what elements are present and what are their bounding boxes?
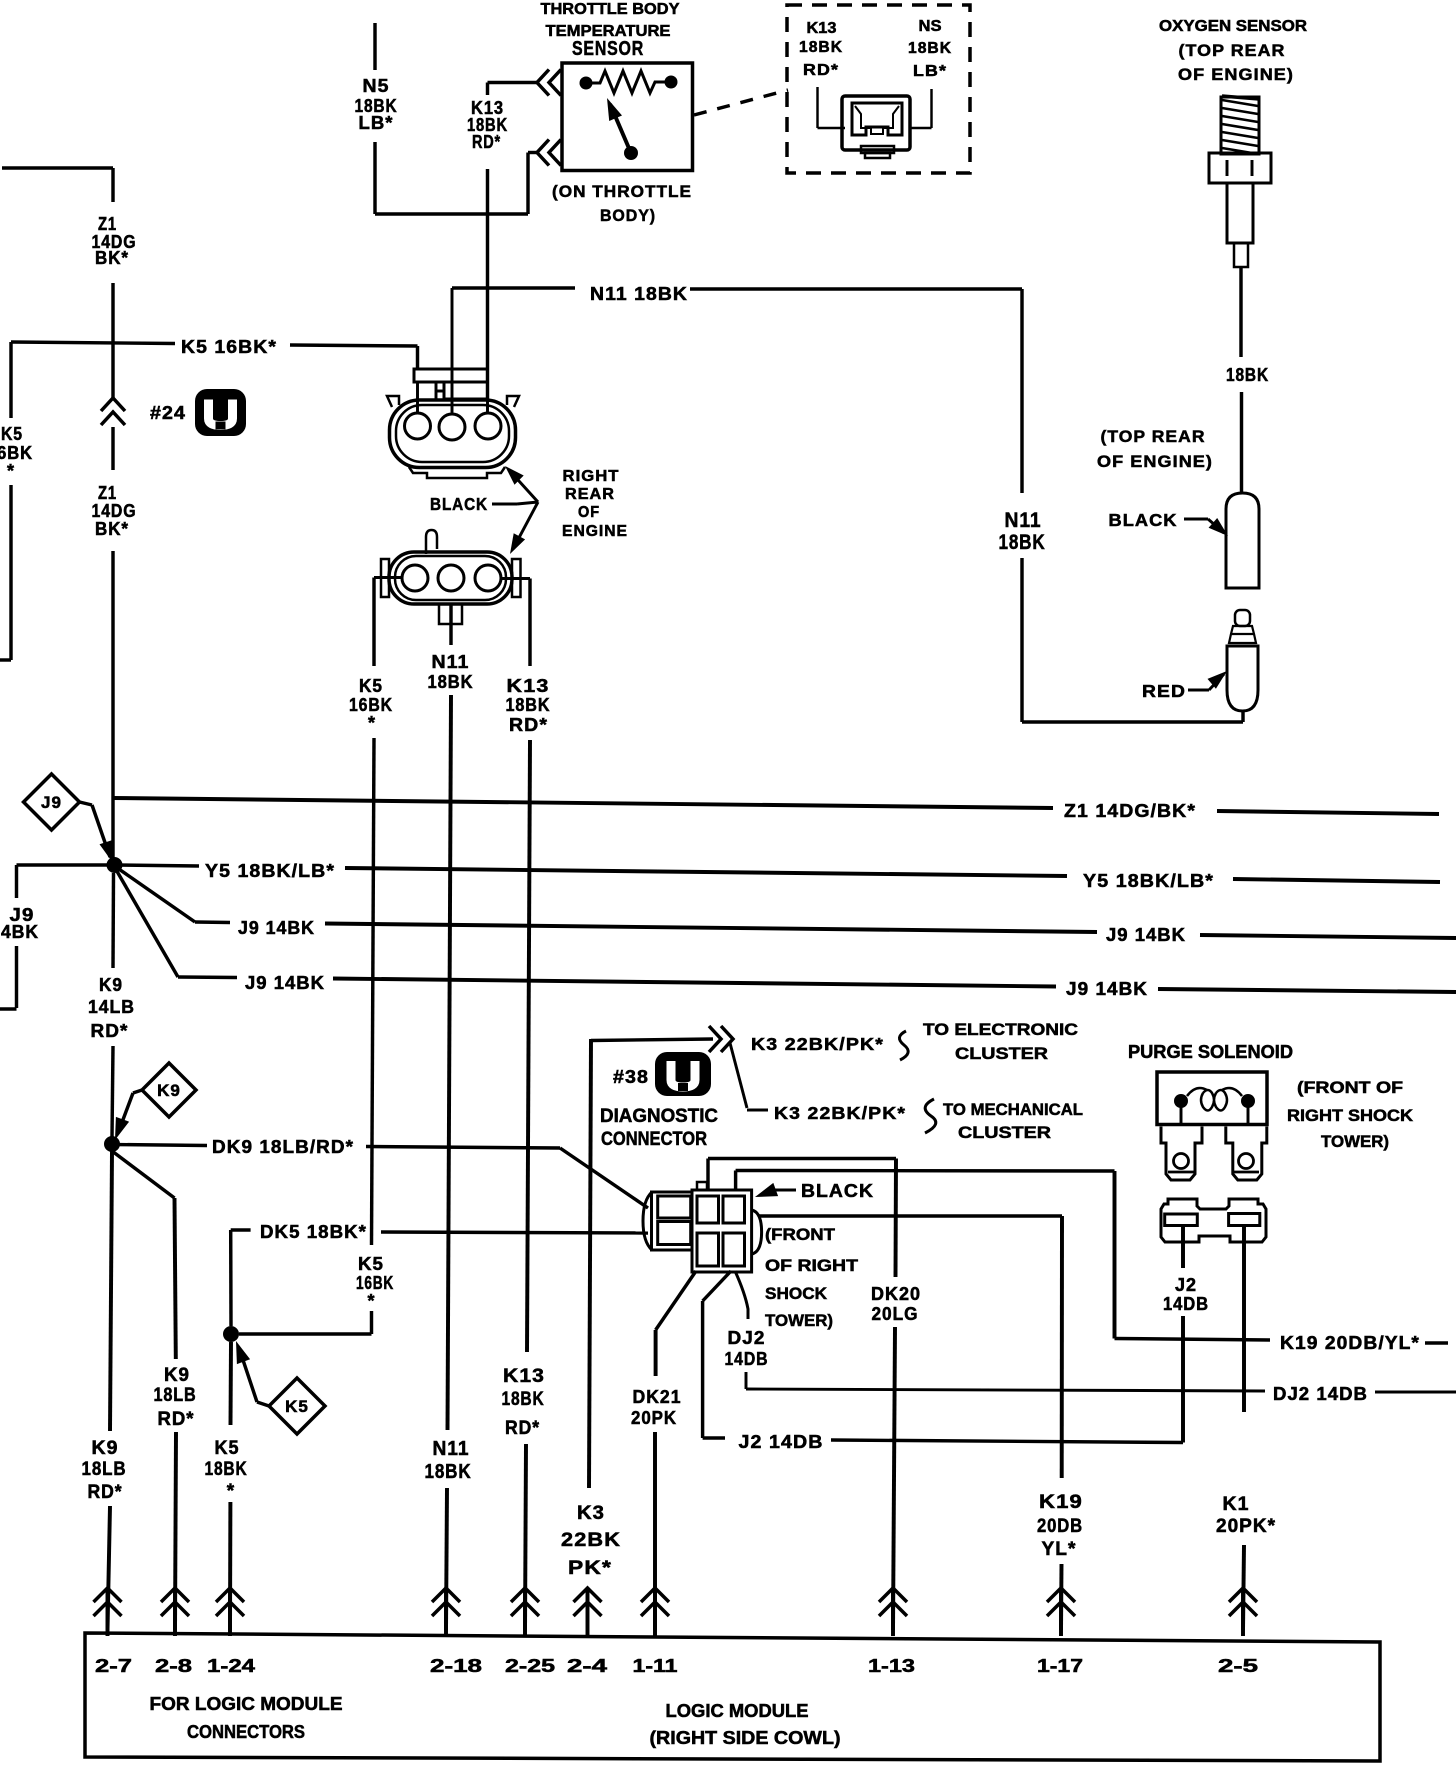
svg-text:16BK: 16BK — [349, 695, 393, 715]
svg-text:DIAGNOSTIC: DIAGNOSTIC — [600, 1106, 718, 1127]
svg-text:2-7: 2-7 — [95, 1655, 132, 1676]
oxygen sensor hex — [1209, 153, 1271, 183]
svg-text:1-17: 1-17 — [1037, 1655, 1083, 1676]
svg-text:14DB: 14DB — [1163, 1294, 1209, 1314]
oxygen sensor tip — [1234, 243, 1248, 267]
diagnostic connector cell right-top-2 — [723, 1196, 745, 1223]
connector C2 pin 2 — [438, 565, 464, 591]
module pin arrow 2-18 — [432, 1588, 460, 1602]
wire K1 from solenoid connector — [1242, 1226, 1246, 1412]
wire K13 long drop — [527, 740, 530, 1352]
svg-text:18BK: 18BK — [908, 40, 952, 57]
svg-text:K5: K5 — [1, 424, 23, 444]
svg-text:J2 14DB: J2 14DB — [739, 1432, 824, 1452]
svg-text:K5: K5 — [359, 676, 383, 696]
wire DK20 from connector top — [706, 1159, 709, 1191]
wire J2 from solenoid connector — [1181, 1226, 1185, 1268]
diagnostic connector top tab — [697, 1182, 707, 1190]
svg-text:PURGE SOLENOID: PURGE SOLENOID — [1128, 1042, 1293, 1062]
connector C1 cap rectangles — [414, 369, 488, 382]
svg-text:J9 14BK: J9 14BK — [1066, 979, 1148, 999]
throttle sensor box — [562, 63, 693, 171]
wire DJ2 to page edge — [1375, 1391, 1456, 1394]
connector C2 body — [389, 552, 512, 604]
detail connector body — [842, 96, 910, 150]
svg-text:K9: K9 — [164, 1365, 190, 1386]
wire K5 into C1 pin1 — [416, 382, 419, 413]
wire DK5 corner and stub — [231, 1228, 251, 1231]
wire J2 drop to corner — [1181, 1316, 1185, 1443]
svg-text:18BK: 18BK — [428, 672, 474, 692]
connector slot left — [1165, 1214, 1198, 1226]
svg-text:18BK: 18BK — [502, 1389, 545, 1410]
junction splice dot K9/DK9 — [104, 1136, 120, 1152]
svg-text:18BK: 18BK — [506, 695, 551, 715]
wire J9 line 1 left — [195, 920, 230, 924]
wire DJ2 elbow — [745, 1372, 748, 1389]
wire K9 second drop — [175, 1198, 176, 1359]
connector C1 pin 1 — [405, 413, 431, 439]
wire K5 16BK* upper horizontal — [11, 342, 175, 344]
wire K5 16BK drop long — [372, 738, 375, 1245]
svg-text:20DB: 20DB — [1037, 1516, 1083, 1537]
svg-text:TOWER): TOWER) — [1321, 1132, 1389, 1151]
svg-text:DK9 18LB/RD*: DK9 18LB/RD* — [212, 1137, 354, 1157]
wire DK21 to module — [653, 1432, 657, 1630]
wire DK21 diagonal from connector — [656, 1271, 696, 1330]
module pin arrow 2-7 — [94, 1588, 122, 1602]
svg-text:RD*: RD* — [803, 62, 839, 79]
wire K5 16BK drop upper — [372, 578, 375, 667]
wire J9 line 1 right to edge — [1200, 935, 1456, 938]
wire K9 below splice — [111, 873, 115, 968]
svg-text:K9: K9 — [92, 1438, 119, 1459]
wire J2 horizontal to solenoid drop — [831, 1440, 1183, 1443]
wire J9 4BK exit page — [15, 946, 18, 1008]
module pin arrow 1-24 — [216, 1588, 244, 1602]
wire K19 stub right — [1425, 1341, 1448, 1344]
connector C1 pin 3 — [475, 413, 501, 439]
diagnostic connector left housing — [652, 1192, 693, 1250]
svg-text:K3: K3 — [577, 1503, 605, 1524]
wire K9 branch to module — [175, 1432, 176, 1630]
wire K5 elbow into junction — [370, 1311, 373, 1334]
svg-text:N11: N11 — [1005, 509, 1042, 532]
svg-text:BLACK: BLACK — [1109, 510, 1178, 530]
svg-text:18BK: 18BK — [1226, 365, 1269, 385]
female bullet terminal BLACK — [1226, 493, 1259, 588]
arrow from K5 diamond to splice — [257, 1402, 269, 1406]
svg-text:YL*: YL* — [1042, 1539, 1077, 1560]
solenoid coil — [1174, 1094, 1188, 1108]
wire K1 to module — [1243, 1545, 1244, 1630]
svg-text:*: * — [367, 1291, 375, 1311]
svg-text:N11: N11 — [433, 1438, 470, 1460]
svg-text:REAR: REAR — [565, 486, 615, 503]
svg-text:K5 16BK*: K5 16BK* — [181, 337, 277, 357]
svg-text:K3 22BK/PK*: K3 22BK/PK* — [751, 1034, 884, 1054]
module pin arrow 1-17 — [1047, 1588, 1075, 1602]
wire J2 horizontal left part — [703, 1436, 725, 1439]
wire N11 vertical right branch — [1020, 558, 1023, 722]
oxygen sensor body — [1227, 183, 1253, 243]
svg-text:OF RIGHT: OF RIGHT — [765, 1256, 859, 1275]
wire Z1 vertical down to junction — [111, 551, 114, 865]
diagnostic connector cell left-top — [658, 1196, 691, 1218]
diagnostic connector cell right-bottom-2 — [723, 1233, 745, 1266]
chevron K3 to electronic cluster — [721, 1026, 733, 1052]
svg-text:K13: K13 — [507, 676, 550, 696]
wire K9 branch diagonal to second drop — [112, 1151, 175, 1198]
wire Y5 right segment — [1233, 879, 1440, 882]
wire J2 vertical — [701, 1301, 704, 1438]
wire K5 18BK below splice — [229, 1342, 233, 1425]
purge solenoid body — [1157, 1072, 1267, 1125]
connector C2 pin 1 — [402, 565, 428, 591]
wire DJ2 stub from connector bottom — [735, 1271, 748, 1319]
svg-text:20PK: 20PK — [631, 1408, 677, 1428]
svg-text:4BK: 4BK — [1, 922, 39, 942]
svg-text:N11 18BK: N11 18BK — [590, 284, 688, 304]
svg-text:18BK: 18BK — [205, 1459, 248, 1480]
svg-text:RED: RED — [1142, 681, 1186, 701]
svg-text:DJ2: DJ2 — [728, 1328, 766, 1348]
svg-text:OF ENGINE): OF ENGINE) — [1178, 65, 1294, 84]
svg-text:OF ENGINE): OF ENGINE) — [1097, 452, 1213, 471]
wire N11 horizontal — [452, 286, 575, 289]
junction splice dot K5/DK5 — [223, 1326, 239, 1342]
svg-text:(FRONT OF: (FRONT OF — [1297, 1078, 1403, 1097]
wire K13 exit from C2 pin3 — [501, 577, 530, 580]
connector C1 pin 2 — [439, 414, 465, 440]
module pin arrow 2-4 — [574, 1588, 602, 1602]
svg-text:K19: K19 — [1039, 1492, 1083, 1513]
svg-text:DJ2 14DB: DJ2 14DB — [1273, 1384, 1368, 1404]
wire K19 branch vertical — [1113, 1171, 1117, 1339]
wire J9 line 1 long — [325, 924, 1097, 933]
K9 circuit diamond — [142, 1063, 196, 1117]
solenoid terminal right — [1226, 1127, 1267, 1181]
wire DK20 vertical to module — [893, 1327, 895, 1630]
wire J9 diagonal branch 2 — [115, 867, 179, 977]
svg-text:BK*: BK* — [95, 248, 129, 268]
wire N11 vertical to top — [1020, 289, 1023, 493]
svg-text:CONNECTOR: CONNECTOR — [601, 1129, 707, 1150]
svg-text:DK21: DK21 — [633, 1387, 682, 1407]
svg-text:Z1: Z1 — [98, 214, 117, 234]
svg-text:RD*: RD* — [88, 1482, 123, 1503]
wire DK9 horizontal right — [366, 1147, 560, 1149]
svg-text:#24: #24 — [150, 403, 186, 423]
wire oxygen sensor lead lower — [1240, 392, 1243, 493]
wire K9 to second splice — [112, 1046, 113, 1137]
wire Y5 horizontal left corner — [17, 863, 115, 866]
svg-text:#38: #38 — [613, 1067, 649, 1087]
svg-text:FOR LOGIC MODULE: FOR LOGIC MODULE — [150, 1694, 343, 1714]
svg-text:THROTTLE BODY: THROTTLE BODY — [541, 1, 681, 18]
solenoid terminal left — [1161, 1127, 1202, 1181]
wire from RED terminal to N11 branch — [1241, 711, 1244, 722]
svg-text:16BK: 16BK — [356, 1273, 394, 1293]
connector C2 pin 3 — [475, 565, 501, 591]
wire N5 vertical stub top — [373, 23, 376, 70]
wire K13 into C1 pin3 — [486, 382, 489, 413]
svg-text:K3 22BK/PK*: K3 22BK/PK* — [774, 1103, 906, 1123]
svg-text:K19 20DB/YL*: K19 20DB/YL* — [1280, 1333, 1420, 1353]
break squiggle upper — [899, 1031, 908, 1060]
module pin arrow 1-11 — [641, 1588, 669, 1602]
svg-text:*: * — [368, 713, 376, 733]
svg-text:18LB: 18LB — [82, 1459, 127, 1480]
connector C1 bottom notch — [409, 467, 505, 478]
wire N11 long drop — [448, 695, 452, 1430]
K5 circuit diamond — [269, 1378, 325, 1434]
wire J9 line 2 long — [333, 979, 1056, 987]
svg-text:1-24: 1-24 — [207, 1655, 256, 1676]
svg-text:TO ELECTRONIC: TO ELECTRONIC — [923, 1020, 1078, 1039]
svg-text:J9 14BK: J9 14BK — [238, 918, 315, 938]
wire K9 main to module — [108, 1506, 111, 1630]
svg-text:BLACK: BLACK — [430, 494, 488, 514]
svg-text:*: * — [227, 1481, 235, 1502]
svg-text:NS: NS — [919, 18, 942, 35]
wire K3 branch diagonal — [730, 1043, 747, 1108]
svg-text:18LB: 18LB — [154, 1385, 197, 1406]
svg-text:TOWER): TOWER) — [765, 1311, 833, 1330]
wire Z1 top horizontal from page edge — [2, 166, 113, 169]
wire N11 to module — [446, 1488, 447, 1630]
wire DK21 vertical upper — [654, 1330, 658, 1376]
connector slot right — [1229, 1214, 1260, 1226]
male bullet terminal RED — [1235, 610, 1250, 626]
module pin arrow 2-25 — [511, 1588, 539, 1602]
pin chevron lower — [537, 140, 549, 166]
svg-text:Z1 14DG/BK*: Z1 14DG/BK* — [1064, 801, 1196, 821]
svg-text:RIGHT SHOCK: RIGHT SHOCK — [1287, 1106, 1414, 1125]
svg-text:SENSOR: SENSOR — [572, 38, 644, 60]
wire K19 from connector right side — [758, 1214, 1062, 1217]
wire DK5 horizontal to diagnostic connector — [381, 1232, 648, 1233]
svg-text:N11: N11 — [432, 652, 470, 672]
wire Z1 right segment — [1217, 811, 1439, 814]
dashed leader from sensor to detail box — [694, 90, 788, 115]
wire Y5 horizontal long — [345, 868, 1067, 876]
module pin arrow 2-5 — [1229, 1588, 1257, 1602]
arrow from BLACK to both connectors — [492, 503, 517, 506]
wire K13 vertical to connector pin 3 — [486, 169, 489, 400]
svg-text:(FRONT: (FRONT — [765, 1225, 836, 1244]
wire K19 vertical to module upper — [1060, 1216, 1064, 1478]
svg-text:(TOP REAR: (TOP REAR — [1101, 427, 1206, 446]
wire Z1 vertical segment below chevron — [111, 427, 114, 470]
svg-text:Y5 18BK/LB*: Y5 18BK/LB* — [1083, 871, 1214, 891]
svg-text:RD*: RD* — [509, 715, 548, 735]
wire K19 to module — [1059, 1564, 1063, 1630]
svg-text:LB*: LB* — [359, 113, 394, 133]
svg-text:N5: N5 — [363, 76, 390, 96]
svg-text:RIGHT: RIGHT — [563, 468, 620, 485]
svg-text:14DG: 14DG — [92, 501, 137, 521]
svg-text:J2: J2 — [1175, 1275, 1197, 1295]
wire K5 left drop lower segment exiting page — [9, 485, 12, 660]
svg-text:18BK: 18BK — [425, 1461, 472, 1483]
svg-text:2-25: 2-25 — [505, 1655, 555, 1676]
wire K5 exit from C2 pin1 — [374, 576, 402, 579]
diagnostic connector cell right-bottom-1 — [697, 1233, 719, 1266]
svg-text:BODY): BODY) — [600, 206, 656, 225]
svg-text:LOGIC MODULE: LOGIC MODULE — [666, 1701, 809, 1721]
svg-text:*: * — [7, 461, 15, 481]
wire K3 branch horizontal — [747, 1109, 768, 1112]
wire K5 upper horizontal to connector — [290, 345, 418, 346]
wire oxygen sensor lead upper — [1239, 267, 1242, 357]
svg-text:PK*: PK* — [568, 1558, 612, 1579]
dashed detail box — [787, 5, 970, 173]
wire K19 branch horizontal — [1115, 1339, 1271, 1341]
svg-text:RD*: RD* — [472, 132, 501, 152]
wire Y5 horizontal mid — [115, 865, 200, 866]
svg-text:1-13: 1-13 — [868, 1655, 915, 1676]
svg-text:K13: K13 — [807, 20, 837, 37]
svg-text:20LG: 20LG — [872, 1304, 919, 1324]
svg-text:22BK: 22BK — [561, 1530, 621, 1551]
svg-text:Y5 18BK/LB*: Y5 18BK/LB* — [205, 861, 335, 881]
svg-text:J9 14BK: J9 14BK — [1106, 925, 1186, 945]
wire K5 18BK to module — [228, 1502, 232, 1630]
svg-text:J9 14BK: J9 14BK — [245, 973, 325, 993]
wire K3 riser and corner — [589, 1039, 591, 1488]
connector C2 side tabs — [381, 559, 389, 597]
svg-text:K9: K9 — [99, 975, 123, 995]
wire N11 horizontal right segment — [690, 287, 1022, 290]
svg-text:TO MECHANICAL: TO MECHANICAL — [943, 1100, 1083, 1119]
svg-text:2-8: 2-8 — [155, 1655, 192, 1676]
svg-text:CLUSTER: CLUSTER — [958, 1123, 1051, 1142]
svg-text:CONNECTORS: CONNECTORS — [187, 1722, 305, 1742]
detail connector bottom tab — [861, 146, 894, 153]
diagnostic connector cell right-top-1 — [697, 1196, 719, 1223]
svg-text:14DB: 14DB — [725, 1349, 769, 1369]
connector C2 bottom tab — [439, 605, 462, 624]
svg-text:OF: OF — [578, 504, 600, 521]
svg-text:2-5: 2-5 — [1218, 1655, 1258, 1676]
wire K13 from sensor upper pin — [561, 81, 563, 84]
wire N5 down and right to sensor lower pin — [373, 142, 376, 214]
svg-text:K9: K9 — [157, 1081, 181, 1100]
wire K5 left drop at page edge — [9, 342, 12, 418]
svg-text:14LB: 14LB — [88, 997, 135, 1017]
svg-text:K5: K5 — [285, 1397, 309, 1416]
svg-text:2-4: 2-4 — [567, 1655, 608, 1676]
diagnostic connector right housing — [692, 1190, 752, 1272]
wire Z1 branch corner to right-page line — [113, 798, 1053, 808]
svg-text:DK20: DK20 — [871, 1284, 921, 1304]
logic module box — [85, 1633, 1380, 1761]
svg-text:OXYGEN SENSOR: OXYGEN SENSOR — [1159, 18, 1307, 35]
wire J2 stub from connector bottom — [703, 1271, 731, 1301]
wire K13 to module — [525, 1444, 526, 1630]
break squiggle lower — [925, 1099, 936, 1133]
wire J9 line 2 left — [178, 975, 237, 979]
module pin arrow 1-13 — [879, 1588, 907, 1602]
wire DK9 diagonal into diagnostic connector — [560, 1148, 648, 1208]
J9 circuit diamond — [24, 774, 80, 830]
svg-text:DK5 18BK*: DK5 18BK* — [260, 1222, 367, 1242]
diagnostic connector cell left-bottom — [658, 1222, 691, 1245]
svg-text:RD*: RD* — [91, 1021, 129, 1041]
svg-text:RD*: RD* — [158, 1409, 195, 1430]
svg-text:1-11: 1-11 — [633, 1655, 678, 1676]
svg-text:K5: K5 — [215, 1438, 240, 1459]
diagnostic connector right bulge — [752, 1210, 762, 1254]
svg-text:(RIGHT SIDE COWL): (RIGHT SIDE COWL) — [650, 1728, 841, 1748]
wire K19 cluster-branch from connector top — [734, 1171, 737, 1191]
connector C2 lock tab — [426, 530, 437, 554]
svg-text:20PK*: 20PK* — [1216, 1516, 1276, 1537]
svg-text:18BK: 18BK — [999, 531, 1046, 554]
wire N11 drop from C2 pin2 — [449, 604, 452, 645]
svg-text:K1: K1 — [1223, 1494, 1250, 1515]
svg-text:CLUSTER: CLUSTER — [955, 1044, 1048, 1063]
connector C1 body — [390, 400, 516, 468]
svg-text:Z1: Z1 — [98, 483, 117, 503]
arrow from K9 diamond to splice — [133, 1090, 142, 1093]
wire Z1 vertical segment above chevron — [111, 283, 114, 399]
arrow from J9 diamond to splice — [80, 802, 93, 805]
wire J9 diagonal branch 1 — [115, 866, 196, 922]
svg-text:16BK: 16BK — [0, 443, 33, 463]
svg-text:ENGINE: ENGINE — [562, 523, 628, 540]
wire J9 4BK drop at page edge — [15, 865, 18, 898]
wire K13 drop from C2 — [528, 579, 531, 667]
diagnostic connector left flange — [643, 1192, 652, 1250]
module pin arrow 2-8 — [161, 1588, 189, 1602]
svg-text:K13: K13 — [503, 1366, 545, 1387]
connector C1 corner tabs — [387, 396, 399, 407]
wire J9 line 2 right to edge — [1158, 989, 1456, 992]
svg-text:BLACK: BLACK — [801, 1180, 874, 1201]
pin chevron upper (N5 side feeds K13) — [537, 70, 549, 96]
wire DK9 from splice — [112, 1145, 207, 1146]
detail connector wires — [816, 87, 818, 128]
svg-text:J9: J9 — [41, 793, 62, 812]
svg-text:(TOP REAR: (TOP REAR — [1179, 41, 1286, 60]
solenoid mating connector — [1161, 1199, 1266, 1242]
wire N11 from C1 pin2 up to junction — [451, 288, 454, 414]
resistor element inside sensor — [580, 77, 593, 90]
wire DK20 vertical upper — [894, 1159, 898, 1278]
svg-text:18BK: 18BK — [799, 39, 843, 56]
svg-text:LB*: LB* — [913, 63, 947, 80]
svg-text:SHOCK: SHOCK — [765, 1284, 828, 1303]
oxygen sensor threaded stud — [1221, 97, 1259, 154]
connector symbol chevron on Z1 wire — [101, 398, 125, 411]
wire K9 main below splice — [110, 1151, 112, 1431]
wiper arrow inside sensor — [624, 146, 638, 160]
svg-text:2-18: 2-18 — [430, 1655, 482, 1676]
svg-text:RD*: RD* — [505, 1418, 540, 1439]
junction splice dot J9/Y5/K9 — [107, 857, 123, 873]
svg-text:(ON THROTTLE: (ON THROTTLE — [552, 182, 692, 201]
svg-text:K5: K5 — [358, 1254, 384, 1274]
svg-text:BK*: BK* — [95, 519, 129, 539]
